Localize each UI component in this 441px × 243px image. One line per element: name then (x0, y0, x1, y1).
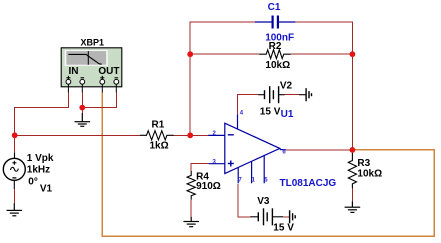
svg-text:R3: R3 (357, 158, 370, 169)
svg-text:C1: C1 (268, 2, 281, 13)
svg-text:IN: IN (69, 66, 79, 77)
svg-text:V2: V2 (280, 81, 293, 92)
svg-text:TL081ACJG: TL081ACJG (280, 178, 337, 189)
svg-text:1kHz: 1kHz (27, 164, 50, 175)
svg-text:15 V: 15 V (273, 223, 294, 234)
svg-text:OUT: OUT (98, 66, 119, 77)
svg-text:1 Vpk: 1 Vpk (27, 153, 54, 164)
svg-text:1kΩ: 1kΩ (150, 141, 169, 152)
svg-text:V3: V3 (257, 196, 270, 207)
svg-text:V1: V1 (40, 184, 53, 195)
svg-text:15 V: 15 V (260, 107, 281, 118)
svg-text:100nF: 100nF (265, 33, 294, 44)
svg-text:10kΩ: 10kΩ (265, 60, 290, 71)
svg-text:R1: R1 (152, 120, 165, 131)
svg-text:0°: 0° (28, 177, 38, 188)
svg-text:U1: U1 (281, 109, 294, 120)
svg-text:10kΩ: 10kΩ (357, 169, 382, 180)
svg-text:910Ω: 910Ω (196, 181, 221, 192)
svg-text:XBP1: XBP1 (80, 37, 104, 47)
